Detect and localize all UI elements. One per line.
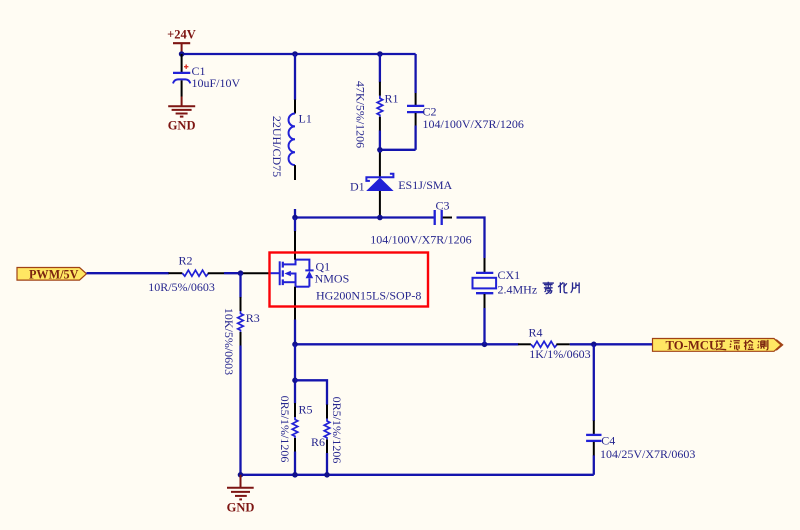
wire: C4 branch down (593, 344, 595, 421)
svg-text:CX1: CX1 (498, 268, 521, 282)
svg-text:0R5/1%/1206: 0R5/1%/1206 (330, 397, 344, 464)
wire: CX1 bottom (483, 308, 485, 344)
svg-text:L1: L1 (299, 112, 312, 126)
resistor R5 (292, 403, 312, 453)
wire: +24V top rail (182, 53, 416, 55)
crystal CX1 (atomizer disc) (473, 258, 521, 308)
wire: R1 bottom to C2 bottom (380, 149, 416, 151)
highlight box around Q1 (270, 253, 429, 307)
junction ground rail / R5 (292, 472, 298, 478)
wire: R6 to ground rail (326, 453, 328, 475)
resistor R4 (518, 326, 570, 348)
junction source rail / Q1 source (292, 342, 298, 348)
wire: C2 bottom (414, 126, 416, 150)
wire: R4 to output port (570, 343, 653, 345)
svg-text:R5: R5 (299, 403, 313, 417)
wire: source column to R5 (294, 344, 296, 403)
resistor R6 (311, 405, 330, 454)
svg-text:TO-MCU: TO-MCU (666, 339, 719, 353)
wire: source down (294, 320, 296, 345)
junction drain rail / L1 (292, 215, 298, 221)
capacitor C4 (586, 421, 615, 456)
svg-text:104/100V/X7R/1206: 104/100V/X7R/1206 (423, 117, 524, 131)
svg-text:1K/1%/0603: 1K/1%/0603 (529, 347, 590, 361)
ground (top, below C1) (168, 97, 196, 133)
wire: C3 to CX1 branch (457, 218, 485, 259)
wire: R2 to gate (224, 272, 241, 274)
svg-text:47K/5%/1206: 47K/5%/1206 (354, 81, 368, 148)
svg-text:10R/5%/0603: 10R/5%/0603 (148, 280, 215, 294)
svg-text:104/25V/X7R/0603: 104/25V/X7R/0603 (600, 447, 695, 461)
junction source rail / C4 (591, 342, 597, 348)
svg-text:D1: D1 (350, 180, 365, 194)
junction top rail / L1 (292, 51, 298, 57)
junction R5/R6 split (292, 378, 298, 384)
ground (bottom) (227, 475, 255, 515)
junction gate / R3 (238, 270, 244, 276)
diode D1 (350, 150, 394, 218)
wire: R5 to ground rail (294, 452, 296, 475)
svg-text:PWM/5V: PWM/5V (29, 267, 79, 281)
svg-text:2.4MHz: 2.4MHz (498, 283, 538, 297)
junction source rail / CX1 (482, 342, 488, 348)
svg-text:10uF/10V: 10uF/10V (192, 76, 241, 90)
wire: C4 bottom to ground rail (593, 455, 595, 474)
svg-text:R3: R3 (246, 311, 260, 325)
port TO-MCU current sense (653, 339, 783, 353)
transistor Q1 NMOS (269, 218, 349, 321)
svg-text:R6: R6 (311, 435, 325, 449)
annotation CJK wu-hua-pian (543, 282, 580, 294)
svg-text:104/100V/X7R/1206: 104/100V/X7R/1206 (370, 232, 471, 246)
wire: top rail corner down to C2 (414, 54, 416, 93)
resistor R3 (238, 273, 260, 346)
wire: ground rail (241, 474, 594, 476)
junction drain rail / D1 (377, 215, 383, 221)
junction top rail / R1 (377, 51, 383, 57)
svg-text:+24V: +24V (167, 28, 196, 42)
svg-text:R2: R2 (179, 253, 193, 267)
port PWM/5V (17, 267, 87, 281)
wire: drain rail (295, 216, 434, 218)
svg-text:R4: R4 (529, 326, 543, 340)
inductor L1 (289, 54, 312, 180)
power +24V (167, 28, 196, 55)
wire: source rail (295, 343, 519, 345)
svg-text:22UH/CD75: 22UH/CD75 (270, 116, 284, 177)
wire: gate pin (241, 272, 270, 274)
junction ground rail / R3-GND (238, 472, 244, 478)
svg-text:0R5/1%/1206: 0R5/1%/1206 (278, 396, 292, 463)
junction at +24V / C1 (179, 51, 185, 57)
svg-text:NMOS: NMOS (315, 271, 350, 285)
wire: PWM to R2 (87, 272, 170, 274)
wire: branch to R6 (295, 380, 327, 405)
resistor R1 (377, 54, 398, 150)
capacitor C3 (435, 199, 452, 226)
svg-text:C4: C4 (601, 433, 615, 447)
resistor R2 (169, 253, 225, 276)
svg-text:C3: C3 (436, 199, 450, 213)
svg-text:GND: GND (227, 501, 255, 515)
capacitor C2 (407, 93, 437, 126)
svg-text:HG200N15LS/SOP-8: HG200N15LS/SOP-8 (316, 289, 421, 303)
svg-text:10K/5%/0603: 10K/5%/0603 (222, 308, 236, 375)
wire: R3 to ground rail (239, 346, 241, 475)
svg-text:GND: GND (168, 119, 196, 133)
svg-text:ES1J/SMA: ES1J/SMA (398, 178, 452, 192)
junction ground rail / R6 (324, 472, 330, 478)
junction R1 bottom / D1 (377, 147, 383, 153)
wire: L1 to drain rail (294, 209, 296, 218)
svg-text:R1: R1 (385, 92, 399, 106)
capacitor C1 (173, 54, 206, 97)
